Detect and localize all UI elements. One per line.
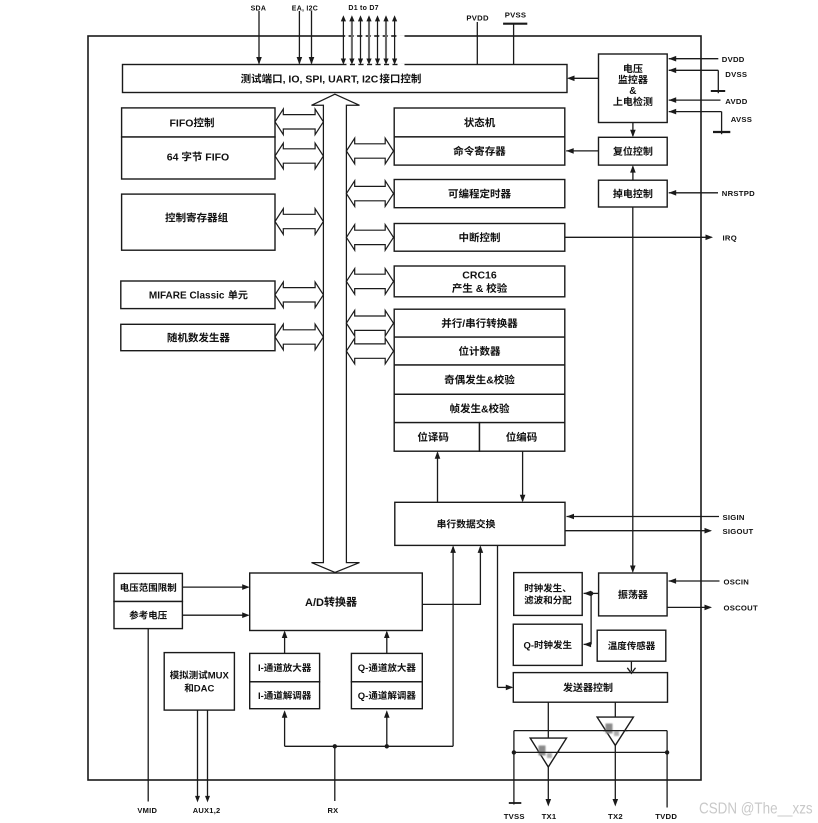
wire: branch to Q-clock generation (584, 593, 592, 647)
block: test port / IO / SPI / UART / I2C interface control (123, 65, 568, 93)
wire: temperature sensor to transmitter control (627, 661, 635, 673)
svg-text:64: 64 (167, 151, 182, 163)
wire: voltage monitor to reset control (630, 123, 636, 138)
block: Q-channel demodulator (351, 682, 422, 709)
svg-text:Q-: Q- (524, 640, 535, 651)
svg-text:MIFARE Classic: MIFARE Classic (149, 291, 227, 302)
svg-text:VMID: VMID (137, 806, 157, 815)
chip outline (88, 36, 701, 780)
svg-text:DVSS: DVSS (725, 70, 747, 79)
TX supply rail upper (514, 730, 667, 732)
block: I-channel demodulator (250, 682, 320, 709)
pin PVSS (503, 11, 527, 65)
pin SDA (251, 5, 267, 64)
bus arrow to control registers (275, 209, 323, 235)
block: clock generation filtering distribution (514, 573, 583, 616)
wire: power-down control to oscillator (630, 207, 636, 573)
svg-text:AUX1,2: AUX1,2 (193, 806, 221, 815)
block: MIFARE Classic unit (121, 281, 275, 309)
svg-text:Q-: Q- (358, 663, 369, 674)
block: interrupt control (394, 224, 565, 252)
wire: transmitter control to TX2 driver (614, 702, 616, 717)
block: reference voltage (114, 602, 182, 629)
pin OSCOUT wire (667, 604, 758, 613)
svg-text:&: & (473, 283, 486, 295)
svg-text:RX: RX (328, 806, 339, 815)
pin NRSTPD (669, 189, 755, 198)
svg-text:DAC: DAC (194, 683, 215, 694)
svg-text:OSCOUT: OSCOUT (724, 604, 758, 613)
block: Q-clock generation (513, 624, 582, 665)
block: temperature sensor (597, 630, 666, 661)
svg-text:SIGOUT: SIGOUT (723, 527, 754, 536)
svg-text:TX2: TX2 (608, 812, 623, 821)
bus arrow to parallel/serial converter (346, 310, 393, 336)
block: serial data exchange (395, 502, 565, 545)
wire: serial data exchange to bit decoder (435, 451, 441, 502)
pin DVDD (669, 55, 745, 64)
svg-text:MUX: MUX (208, 670, 230, 681)
bus arrow to timer (346, 181, 393, 207)
rail crossing TX2 triangle (603, 730, 628, 732)
wire: RX distribution (282, 545, 456, 748)
svg-text:CRC16: CRC16 (462, 270, 497, 282)
driver amplifier TX1 (triangle) (514, 738, 667, 767)
svg-text:&: & (481, 403, 489, 415)
watermark CSDN (699, 801, 813, 818)
bus arrow to command register (346, 138, 393, 164)
wire: A/D converter to serial data exchange (422, 545, 483, 604)
svg-text:FIFO: FIFO (202, 151, 229, 163)
pin PVDD (466, 14, 489, 65)
block: Q-channel amplifier (351, 653, 422, 681)
block: frame generation & check (394, 394, 565, 422)
pin TVDD (655, 731, 677, 821)
svg-text:, IO, SPI, UART, I2C: , IO, SPI, UART, I2C (283, 73, 379, 85)
block: power-down control (599, 180, 668, 207)
block: reset control (599, 137, 668, 165)
block: bit encoder (480, 423, 565, 452)
block: parity generation & check (394, 365, 565, 394)
bus arrow to MIFARE unit (275, 282, 323, 308)
svg-text:A/D: A/D (305, 597, 324, 609)
block: A/D converter (250, 573, 423, 631)
block: state machine (394, 108, 565, 137)
pin OSCIN wire (669, 577, 750, 586)
block: transmitter control (513, 673, 667, 703)
svg-text:AVDD: AVDD (725, 97, 747, 106)
block: bit counter (394, 337, 565, 365)
central data bus arrow (312, 94, 360, 572)
svg-text:IRQ: IRQ (723, 234, 737, 243)
svg-text:I-: I- (258, 691, 264, 702)
wire: reference voltage to A/D converter (182, 612, 249, 618)
svg-text:EA, I2C: EA, I2C (292, 5, 318, 12)
svg-text:AVSS: AVSS (731, 115, 752, 124)
svg-text:TX1: TX1 (542, 812, 557, 821)
pin DVSS with ground (669, 68, 748, 94)
block: command register (394, 137, 565, 165)
bus arrow to CRC16 (346, 269, 393, 295)
bus arrow to FIFO control (275, 109, 323, 135)
pin SIGOUT wire (565, 527, 754, 536)
svg-text:DVDD: DVDD (722, 55, 745, 64)
bus arrow to bit counter (346, 338, 393, 364)
smudge in TX1 driver (539, 746, 553, 759)
wire: power-down control to reset control (630, 165, 636, 180)
driver amplifier TX2 (triangle) (597, 717, 633, 745)
svg-text:SIGIN: SIGIN (723, 513, 745, 522)
scan gaps on outline near D pins (345, 35, 404, 65)
pin TX1 (542, 767, 557, 821)
pin TX2 (608, 745, 623, 820)
bus arrow to random generator (275, 324, 323, 350)
block: analog test MUX and DAC (164, 653, 234, 711)
block: random number generator (121, 324, 275, 350)
pin TVSS with ground (504, 731, 525, 821)
pin AVDD (669, 97, 748, 106)
pin SIGIN wire (567, 513, 745, 522)
svg-text:D1 to D7: D1 to D7 (348, 5, 378, 12)
block: parallel/serial converter (394, 309, 565, 337)
wire: bit encoder to serial data exchange (520, 451, 526, 502)
wire: oscillator to clock generation (584, 591, 599, 597)
wire: RX input line (328, 746, 339, 815)
block: FIFO control (122, 108, 275, 137)
wire: I amplifier to A/D (282, 631, 288, 654)
svg-text:/: / (462, 318, 465, 330)
block: control register bank (122, 194, 275, 250)
svg-text:I-: I- (258, 663, 264, 674)
svg-text:&: & (629, 86, 636, 97)
bus arrow to 64-byte FIFO (275, 143, 323, 169)
wire: AUX1,2 outputs (193, 710, 221, 815)
pin AVSS with ground (669, 109, 752, 134)
wire: Q amplifier to A/D (384, 631, 390, 654)
wire: transmitter control to TX1 driver (547, 702, 549, 746)
svg-text:FIFO: FIFO (170, 117, 194, 129)
wire: voltage monitor to interface box (567, 76, 599, 82)
TX supply rail lower (512, 750, 670, 754)
svg-text:SDA: SDA (251, 5, 267, 12)
wire: reset control to command register (566, 148, 598, 154)
pins D1 to D7 (341, 5, 397, 65)
wire: serial data exchange to transmitter control (498, 545, 514, 690)
svg-text:PVSS: PVSS (505, 11, 527, 20)
block: programmable timer (394, 180, 565, 208)
pin EA, I2C (292, 5, 318, 64)
block: CRC16 generation & check (394, 266, 565, 297)
wire: voltage range limit to A/D converter (182, 584, 249, 590)
bus arrow to interrupt control (346, 225, 393, 251)
block: voltage monitor & power-on detect (599, 54, 668, 123)
svg-text:OSCIN: OSCIN (724, 577, 750, 586)
svg-text:PVDD: PVDD (466, 14, 489, 23)
block: bit decoder (394, 423, 479, 452)
svg-text:NRSTPD: NRSTPD (722, 189, 755, 198)
wire: interrupt control to IRQ pin (565, 234, 737, 243)
block: I-channel amplifier (250, 653, 320, 681)
svg-text:TVSS: TVSS (504, 812, 525, 821)
rail crossing TX1 triangle (537, 751, 561, 753)
svg-text:Q-: Q- (358, 691, 369, 702)
block: 64-byte FIFO (122, 137, 275, 179)
svg-text:CSDN @The__xzs: CSDN @The__xzs (699, 801, 813, 818)
smudge in TX2 driver (606, 724, 620, 737)
svg-text:TVDD: TVDD (655, 812, 677, 821)
block: voltage range limit (114, 573, 182, 601)
block: oscillator (599, 573, 668, 616)
wire: VMID (137, 629, 157, 815)
svg-text:&: & (486, 375, 494, 387)
